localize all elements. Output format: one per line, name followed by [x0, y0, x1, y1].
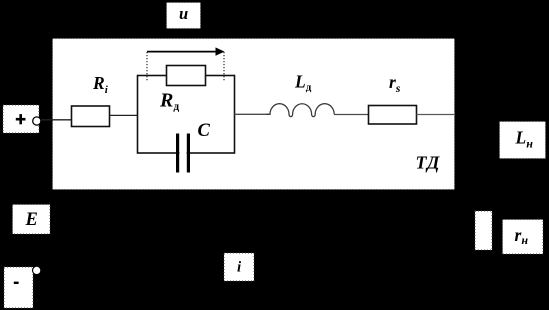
label box rn — [503, 220, 544, 255]
gap in diode box bottom edge between capacitor plates — [179, 151, 186, 157]
inductor Ld coil — [267, 104, 335, 117]
label box E — [13, 205, 51, 235]
dotted dropline left — [146, 52, 148, 82]
load element rectangle — [475, 211, 492, 250]
label box i — [224, 253, 254, 281]
minus sign — [14, 282, 19, 284]
resistor rs — [369, 106, 417, 125]
terminal circle minus — [33, 266, 41, 274]
label box minus — [4, 267, 33, 308]
label box + — [3, 105, 39, 133]
resistor Rd — [167, 66, 206, 86]
svg-text:C: C — [198, 121, 211, 141]
wire rs to right edge — [417, 114, 456, 116]
wire diode box to inductor — [235, 113, 271, 115]
dotted dropline right — [223, 52, 225, 82]
wire inductor to rs — [334, 114, 368, 116]
wire terminal to Ri — [41, 119, 72, 121]
wire Ri to diode box — [110, 114, 138, 116]
label box u — [167, 3, 201, 29]
diode inner box — [138, 76, 235, 154]
main circuit box (equivalent circuit boundary) — [53, 39, 455, 190]
label box Ln — [500, 122, 546, 159]
resistor Ri — [72, 106, 110, 127]
terminal circle + — [33, 117, 41, 125]
capacitor C plates — [176, 134, 179, 173]
measurement arrow over Rd — [147, 51, 216, 53]
svg-text:ТД: ТД — [416, 153, 440, 173]
plus sign — [16, 118, 26, 121]
svg-text:u: u — [179, 4, 188, 23]
svg-text:E: E — [25, 210, 38, 230]
